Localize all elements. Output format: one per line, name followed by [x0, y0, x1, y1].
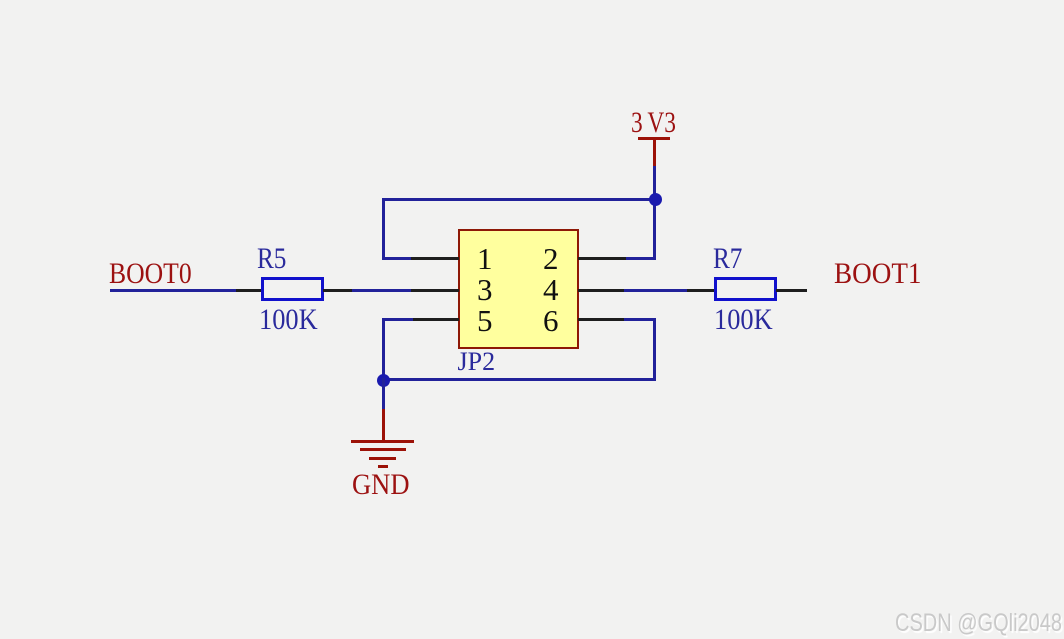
- jumper JP2: pin 1 stub: [411, 257, 459, 260]
- wire: blue stem from 3V3 to junction: [653, 166, 656, 199]
- junction dot at ground net: [377, 374, 390, 387]
- jumper JP2: pin number 3: [477, 274, 493, 305]
- wire: right riser pin6 down to bottom net: [653, 318, 656, 381]
- wire: blue segment into pin 1: [382, 257, 413, 260]
- resistor R7: designator: [713, 244, 742, 274]
- power symbol 3V3: label: [631, 108, 676, 138]
- jumper JP2: pin number 5: [477, 305, 493, 336]
- wire: blue stem from junction to ground: [382, 378, 385, 409]
- wire: left vertical riser from top net down to pin 1: [382, 198, 385, 261]
- wire: top net from pin1 riser to 3V3 junction: [382, 198, 656, 201]
- jumper JP2: pin 2 stub: [578, 257, 626, 260]
- watermark CSDN: [895, 611, 1062, 636]
- wire: right vertical from 3V3 junction down to pin 2: [653, 198, 656, 261]
- wire: bottom net: [382, 378, 656, 381]
- resistor R7: value 100K: [714, 305, 773, 335]
- power symbol 3V3: red stem: [653, 137, 656, 167]
- resistor R7: body: [714, 277, 777, 302]
- jumper JP2: pin number 1: [477, 243, 493, 274]
- jumper JP2: pin 4 stub: [578, 289, 626, 292]
- ground: bar 1: [351, 440, 414, 443]
- jumper JP2: pin number 4: [543, 274, 559, 305]
- jumper JP2: pin number 2: [543, 243, 559, 274]
- net label BOOT1: [834, 259, 921, 289]
- wire: BOOT0 to R5: [110, 289, 237, 292]
- power symbol 3V3: bar: [638, 137, 670, 140]
- wire: R5 to pin 3: [352, 289, 413, 292]
- resistor R7: left pin: [687, 289, 715, 292]
- jumper JP2: pin 6 stub: [578, 318, 626, 321]
- ground: bar 4: [378, 465, 388, 468]
- jumper JP2: body: [458, 229, 579, 349]
- wire: pin 5 to ground riser: [382, 318, 413, 321]
- junction dot at 3V3 net: [649, 193, 662, 206]
- wire: blue segment into pin 2: [624, 257, 656, 260]
- resistor R5: body: [261, 277, 324, 302]
- ground: GND label: [352, 470, 410, 500]
- wire: left riser pin5 down to bottom net: [382, 318, 385, 381]
- resistor R7: right pin: [776, 289, 807, 292]
- resistor R5: left pin: [236, 289, 262, 292]
- resistor R5: right pin: [323, 289, 353, 292]
- jumper JP2: designator: [458, 349, 496, 375]
- wire: pin 6 blue segment: [624, 318, 656, 321]
- jumper JP2: pin 3 stub: [411, 289, 459, 292]
- jumper JP2: pin number 6: [543, 305, 559, 336]
- ground: bar 3: [369, 457, 396, 460]
- resistor R5: designator: [257, 244, 286, 274]
- ground: bar 2: [360, 448, 406, 451]
- jumper JP2: pin 5 stub: [411, 318, 459, 321]
- wire: pin 4 to R7: [624, 289, 689, 292]
- net label BOOT0: [109, 259, 192, 289]
- ground: red stem: [382, 409, 385, 441]
- resistor R5: value 100K: [259, 305, 318, 335]
